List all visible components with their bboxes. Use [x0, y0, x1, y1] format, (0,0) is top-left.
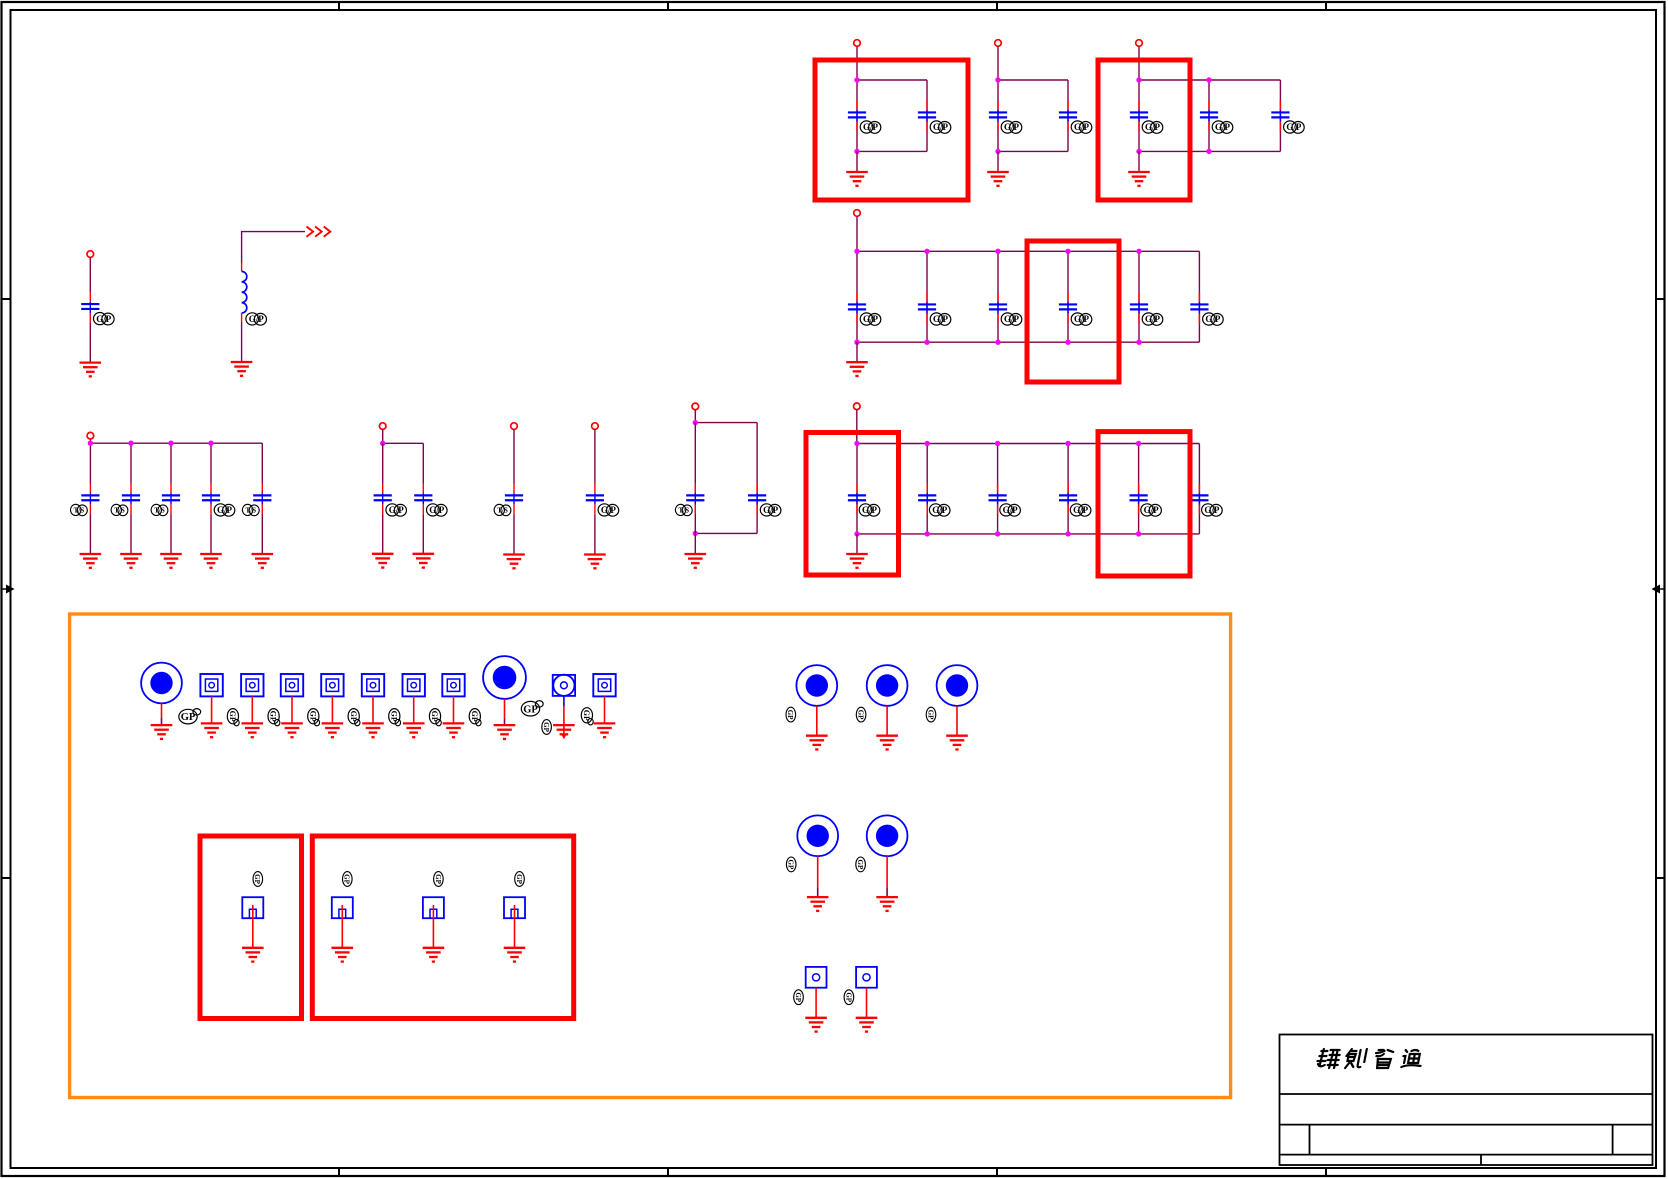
- svg-text:GP: GP: [857, 710, 865, 720]
- label marker G/P of De C3: [1000, 504, 1021, 516]
- label GP of FD3: [308, 709, 320, 726]
- label marker of MH4: [856, 707, 866, 722]
- label marker G/P of L1: [246, 313, 267, 325]
- label GP of FD1: [227, 709, 239, 726]
- wire Da cap 4 branch: [210, 443, 212, 483]
- capacitor C C5: [1130, 292, 1148, 323]
- junction De node: [925, 441, 930, 446]
- FD5 ground lead: [372, 696, 374, 723]
- junction B3 node: [1136, 77, 1141, 82]
- ground C: [846, 362, 868, 376]
- terminal Db power terminal: [379, 423, 386, 430]
- label marker G/P of Da C4: [214, 504, 235, 516]
- wire De ground lead: [856, 534, 858, 554]
- terminal Dc2 power terminal: [592, 423, 599, 430]
- junction Dd node top: [693, 420, 698, 425]
- junction C node: [924, 249, 929, 254]
- label GP of FD2: [268, 709, 280, 726]
- label marker G/P of De C4: [1070, 504, 1091, 516]
- junction B3 node: [1136, 149, 1141, 154]
- junction B1 node: [854, 77, 859, 82]
- svg-text:GP: GP: [181, 712, 196, 723]
- label marker G/P of C C6: [1203, 313, 1224, 325]
- fiducial FD5: [362, 674, 384, 696]
- svg-text:G/P: G/P: [932, 505, 948, 515]
- wire De bottom rail: [857, 533, 1199, 535]
- highlight box around B3 first cap: [1098, 60, 1190, 200]
- svg-text:G/P: G/P: [1145, 122, 1161, 132]
- pad PN2: [332, 897, 353, 918]
- pad PD3: [856, 967, 877, 988]
- junction C node: [854, 249, 859, 254]
- mounting hole MH6: [797, 815, 838, 856]
- FD4 ground lead: [331, 696, 333, 723]
- terminal B1 power terminal: [854, 40, 861, 47]
- ground B3: [1128, 172, 1150, 186]
- PN1 ground lead: [252, 905, 254, 948]
- terminal C power terminal: [854, 210, 861, 217]
- wire B1 bottom rail: [857, 150, 927, 152]
- svg-text:G/P: G/P: [933, 122, 949, 132]
- label marker of Da C5: [242, 504, 259, 515]
- label marker G/P of C C2: [930, 313, 951, 325]
- terminal Dc1 power terminal: [511, 423, 518, 430]
- svg-text:GP: GP: [430, 711, 439, 722]
- ground PN2: [332, 948, 354, 962]
- wire B2 bottom rail: [998, 150, 1068, 152]
- wire C terminal lead: [856, 216, 858, 251]
- highlight box around row C cap 4: [1027, 241, 1119, 382]
- ground Db C2: [413, 554, 435, 568]
- junction De node: [854, 441, 859, 446]
- junction C node: [1136, 340, 1141, 345]
- junction Da node: [128, 441, 133, 446]
- wire Db cap 1 ground lead: [382, 514, 384, 554]
- highlight box orange region: [70, 614, 1231, 1098]
- ground Da C2: [120, 554, 142, 568]
- wire Da top rail: [90, 442, 262, 444]
- capacitor De C2: [918, 483, 936, 514]
- wire C cap 1 branch: [856, 251, 858, 342]
- svg-text:GP: GP: [434, 874, 442, 884]
- capacitor B2 C2: [1059, 100, 1077, 131]
- ground FD6: [403, 723, 425, 737]
- wire B1 terminal lead: [856, 46, 858, 80]
- svg-text:GP: GP: [308, 711, 317, 722]
- wire B3 top rail: [1139, 79, 1280, 81]
- capacitor Dd C1: [686, 483, 704, 514]
- label marker G/P of B3 C2: [1212, 121, 1233, 133]
- svg-text:G/P: G/P: [863, 122, 879, 132]
- svg-text:T/S: T/S: [74, 507, 85, 515]
- wire Dc2 ground lead: [594, 514, 596, 554]
- capacitor B3 C1: [1130, 100, 1148, 131]
- capacitor B1 C1: [848, 100, 866, 131]
- junction C node: [924, 340, 929, 345]
- capacitor Db C1: [374, 483, 392, 514]
- label marker of MH6: [786, 857, 796, 872]
- svg-text:G/P: G/P: [217, 505, 233, 515]
- capacitor B3 C2: [1200, 100, 1218, 131]
- capacitor De C1: [848, 483, 866, 514]
- label marker G/P of B2 C2: [1071, 121, 1092, 133]
- ground FD3: [281, 723, 303, 737]
- label marker of PN2: [343, 872, 353, 887]
- capacitor C C1: [848, 292, 866, 323]
- ground MH4: [876, 736, 898, 750]
- svg-text:GP: GP: [786, 710, 794, 720]
- wire C bottom rail: [857, 341, 1199, 343]
- wire B1 ground lead: [856, 151, 858, 172]
- label marker G/P of C C3: [1001, 313, 1022, 325]
- junction De node: [1065, 531, 1070, 536]
- wire B2 top rail: [998, 79, 1068, 81]
- label marker of MH5: [926, 707, 936, 722]
- junction B2 node: [995, 77, 1000, 82]
- svg-text:GP: GP: [470, 711, 479, 722]
- FD8 ground lead: [604, 696, 606, 723]
- fiducial FD4: [321, 674, 343, 696]
- ground B1: [846, 172, 868, 186]
- junction Da node: [88, 441, 93, 446]
- pad with circle PD1: [553, 675, 575, 696]
- svg-text:T/S: T/S: [497, 507, 508, 515]
- ground De: [846, 554, 868, 568]
- svg-text:G/P: G/P: [1004, 122, 1020, 132]
- svg-text:G/P: G/P: [1144, 505, 1160, 515]
- wire Da cap 2 branch: [130, 443, 132, 483]
- wire C top rail: [857, 250, 1199, 252]
- label GP of FD6: [429, 709, 441, 726]
- PD1 lead: [563, 696, 565, 706]
- wire C ground lead: [856, 342, 858, 362]
- MH2 ground lead: [504, 699, 506, 719]
- ground Da C4: [200, 554, 222, 568]
- terminal node A power: [87, 251, 94, 258]
- svg-text:T/S: T/S: [154, 507, 165, 515]
- pad PD2: [806, 967, 827, 988]
- wire C cap 5 branch: [1138, 251, 1140, 342]
- mounting hole MH3: [796, 665, 837, 706]
- FD3 ground lead: [291, 696, 293, 723]
- ground MH3: [806, 736, 828, 750]
- svg-text:GP: GP: [228, 711, 237, 722]
- wire B1 cap 1 branch: [856, 80, 858, 151]
- ground A: [80, 363, 102, 377]
- label marker G/P of Dc2 C1: [598, 504, 619, 516]
- wire Dc1 ground lead: [513, 514, 515, 554]
- label marker G/P of B1 C2: [930, 121, 951, 133]
- svg-text:GP: GP: [926, 710, 934, 720]
- svg-text:T/S: T/S: [114, 507, 125, 515]
- label marker of Da C2: [111, 504, 128, 515]
- pad PN3: [423, 897, 444, 918]
- wire Da cap 1 branch: [89, 443, 91, 483]
- MH3 ground lead: [816, 706, 818, 736]
- ground FD7: [443, 723, 465, 737]
- label marker G/P of C C5: [1142, 313, 1163, 325]
- ground Da C1: [80, 554, 102, 568]
- label marker G/P of De C5: [1141, 504, 1162, 516]
- junction Da node: [168, 441, 173, 446]
- terminal Dd power terminal: [692, 403, 699, 410]
- wire Da cap 5 branch: [261, 443, 263, 483]
- svg-text:G/P: G/P: [1004, 314, 1020, 324]
- fiducial FD2: [241, 674, 263, 696]
- label marker G/P of Db C2: [427, 504, 448, 516]
- wire Dc2 lead: [594, 429, 596, 483]
- mounting hole MH5: [937, 665, 978, 706]
- capacitor C C6: [1190, 292, 1208, 323]
- svg-text:G/P: G/P: [1145, 314, 1161, 324]
- wire Da cap 2 ground lead: [130, 514, 132, 554]
- svg-text:GP: GP: [582, 710, 591, 721]
- ground FD8: [594, 723, 616, 737]
- ground Da C3: [160, 554, 182, 568]
- capacitor Dc1 C1: [505, 483, 523, 514]
- wire Da terminal lead: [89, 439, 91, 443]
- wire C cap 6 branch: [1198, 251, 1200, 342]
- junction B2 node: [995, 149, 1000, 154]
- svg-text:G/P: G/P: [763, 505, 779, 515]
- junction Dd node bottom: [693, 531, 698, 536]
- label marker G/P of De C2: [929, 504, 950, 516]
- fiducial FD8: [593, 674, 615, 696]
- label marker G/P of C_A1: [94, 313, 115, 325]
- ground PN3: [423, 948, 445, 962]
- label marker G/P of Db C1: [386, 504, 407, 516]
- wire B3 cap 1 branch: [1138, 80, 1140, 151]
- svg-text:G/P: G/P: [1003, 505, 1019, 515]
- capacitor Da C4: [202, 483, 220, 514]
- wire De cap 6 branch: [1198, 444, 1200, 534]
- svg-text:GP: GP: [389, 711, 398, 722]
- capacitor Da C2: [122, 483, 140, 514]
- junction De node: [854, 531, 859, 536]
- wire B2 cap 1 branch: [997, 80, 999, 151]
- MH5 ground lead: [956, 706, 958, 736]
- highlight box pad group A: [200, 836, 302, 1019]
- wire B3 cap 3 branch: [1279, 80, 1281, 151]
- svg-text:GP: GP: [542, 722, 550, 732]
- label marker of Dc1 C1: [494, 504, 511, 515]
- wire Db top rail: [383, 442, 424, 444]
- MH7 ground lead: [886, 856, 888, 888]
- FD1 ground lead: [211, 696, 213, 723]
- wire De terminal lead: [856, 410, 858, 444]
- capacitor C C3: [989, 292, 1007, 323]
- fiducial FD6: [403, 674, 425, 696]
- capacitor C C2: [918, 292, 936, 323]
- ground MH1: [151, 725, 173, 739]
- svg-text:G/P: G/P: [1073, 505, 1089, 515]
- svg-text:G/P: G/P: [1204, 505, 1220, 515]
- label marker G/P of B2 C1: [1001, 121, 1022, 133]
- svg-text:GP: GP: [787, 860, 795, 870]
- junction Db node: [380, 441, 385, 446]
- ground FD2: [242, 723, 264, 737]
- capacitor B1 C2: [918, 100, 936, 131]
- label marker of PN4: [515, 872, 525, 887]
- ground FD4: [322, 723, 344, 737]
- label marker of Da C3: [151, 504, 168, 515]
- wire B2 cap 2 branch: [1067, 80, 1069, 151]
- highlight box around De cap 5: [1098, 432, 1190, 576]
- junction De node: [1136, 441, 1141, 446]
- wire A ground lead: [89, 323, 91, 363]
- label GP of FD8: [581, 708, 593, 725]
- inductor L1: [242, 262, 247, 321]
- pad PN1: [242, 897, 263, 918]
- PD3 ground lead: [866, 988, 868, 1018]
- ground PD1: [553, 725, 575, 734]
- junction C node: [1065, 340, 1070, 345]
- wire Dd cap 1 branch: [694, 423, 696, 534]
- capacitor Dd C2: [748, 483, 766, 514]
- wire B3 ground lead: [1138, 151, 1140, 172]
- terminal De power terminal: [854, 403, 861, 410]
- wire B1 top rail: [857, 79, 927, 81]
- mounting hole MH4: [867, 665, 908, 706]
- wire De cap 1 branch: [856, 444, 858, 534]
- ground PD2: [805, 1018, 827, 1032]
- wire B3 bottom rail: [1139, 150, 1280, 152]
- off-page connector >>>: [307, 227, 331, 237]
- wire Dc1 lead: [513, 429, 515, 483]
- svg-text:GP: GP: [343, 874, 351, 884]
- capacitor B2 C1: [989, 100, 1007, 131]
- svg-text:G/P: G/P: [96, 314, 112, 324]
- svg-text:G/P: G/P: [863, 314, 879, 324]
- label marker of PD3: [844, 990, 854, 1005]
- wire Dd cap 2 branch: [756, 423, 758, 534]
- wire De cap 5 branch: [1138, 444, 1140, 534]
- wire C cap 4 branch: [1067, 251, 1069, 342]
- label marker of MH3: [786, 707, 796, 722]
- ground Dc1: [503, 555, 525, 569]
- wire De cap 2 branch: [926, 444, 928, 534]
- label marker of Da C1: [71, 504, 88, 515]
- label marker of MH7: [856, 857, 866, 872]
- wire B2 ground lead: [997, 151, 999, 172]
- ground B2: [987, 172, 1009, 186]
- ground L1: [231, 362, 253, 376]
- label GP of MH1: [179, 709, 201, 724]
- wire Da cap 4 ground lead: [210, 514, 212, 554]
- ground PD3: [856, 1018, 878, 1032]
- PN3 ground lead: [432, 905, 434, 948]
- wire B3 terminal lead: [1138, 46, 1140, 80]
- PN2 ground lead: [341, 905, 343, 948]
- svg-text:GP: GP: [269, 711, 278, 722]
- wire C cap 2 branch: [926, 251, 928, 342]
- label marker of PD1: [542, 720, 552, 735]
- svg-text:G/P: G/P: [1286, 122, 1302, 132]
- wire De cap 3 branch: [997, 444, 999, 534]
- junction C node: [854, 340, 859, 345]
- wire Db cap 1 branch: [382, 443, 384, 483]
- svg-text:G/P: G/P: [1215, 122, 1231, 132]
- junction De node: [995, 531, 1000, 536]
- svg-text:GP: GP: [349, 711, 358, 722]
- ground MH5: [946, 736, 968, 750]
- label marker G/P of De C6: [1202, 504, 1223, 516]
- pad PN4: [504, 897, 525, 918]
- highlight box pad group B: [312, 836, 573, 1019]
- label marker of PD2: [794, 990, 804, 1005]
- label GP of FD4: [348, 709, 360, 726]
- svg-text:G/P: G/P: [1074, 314, 1090, 324]
- wire Db cap 2 branch: [422, 443, 424, 483]
- ground FD1: [201, 723, 223, 737]
- capacitor C_A1: [81, 292, 99, 323]
- svg-text:T/S: T/S: [679, 507, 690, 515]
- wire Dd terminal lead: [694, 410, 696, 423]
- junction De node: [1065, 441, 1070, 446]
- capacitor Da C1: [81, 483, 99, 514]
- label GP of FD7: [469, 709, 481, 726]
- label GP of FD5: [389, 709, 401, 726]
- svg-text:G/P: G/P: [389, 505, 405, 515]
- ground PN4: [504, 948, 526, 962]
- junction B3 node: [1206, 77, 1211, 82]
- svg-text:GP: GP: [794, 992, 802, 1002]
- svg-text:G/P: G/P: [1205, 314, 1221, 324]
- highlight box around De cap 1: [806, 433, 899, 576]
- FD7 ground lead: [453, 696, 455, 723]
- wire Db terminal lead: [382, 429, 384, 443]
- capacitor Da C3: [162, 483, 180, 514]
- PN4 ground lead: [514, 905, 516, 948]
- label marker G/P of C C4: [1071, 313, 1092, 325]
- svg-text:G/P: G/P: [249, 314, 265, 324]
- capacitor Da C5: [253, 483, 271, 514]
- ground MH6: [807, 897, 829, 911]
- junction C node: [1136, 249, 1141, 254]
- label marker G/P of B3 C1: [1142, 121, 1163, 133]
- wire C cap 3 branch: [997, 251, 999, 342]
- ground MH7: [876, 897, 898, 911]
- ground Da C5: [252, 554, 274, 568]
- ground MH2: [494, 725, 516, 739]
- svg-text:GP: GP: [515, 874, 523, 884]
- capacitor Db C2: [414, 483, 432, 514]
- wire B1 cap 2 branch: [926, 80, 928, 151]
- label marker of PN1: [253, 872, 263, 887]
- junction B3 node: [1206, 149, 1211, 154]
- mounting hole MH7: [867, 815, 908, 856]
- ground PN1: [242, 948, 264, 962]
- wire B2 terminal lead: [997, 46, 999, 80]
- FD6 ground lead: [413, 696, 415, 723]
- capacitor De C6: [1190, 483, 1208, 514]
- wire De top rail: [857, 443, 1199, 445]
- capacitor Dc2 C1: [586, 483, 604, 514]
- wire De cap 4 branch: [1067, 444, 1069, 534]
- MH4 ground lead: [886, 706, 888, 736]
- junction C node: [1065, 249, 1070, 254]
- svg-text:G/P: G/P: [933, 314, 949, 324]
- title block: [1280, 1035, 1653, 1166]
- wire Da cap 1 ground lead: [89, 514, 91, 554]
- wire Dd top rail: [695, 422, 757, 424]
- junction De node: [1136, 531, 1141, 536]
- svg-text:GP: GP: [253, 874, 261, 884]
- junction C node: [995, 340, 1000, 345]
- svg-text:G/P: G/P: [862, 505, 878, 515]
- junction B1 node: [854, 149, 859, 154]
- wire B3 cap 2 branch: [1208, 80, 1210, 151]
